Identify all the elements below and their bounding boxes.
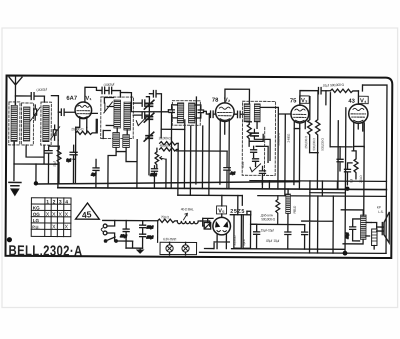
coil L11 IFT2 secondary bbox=[254, 104, 260, 122]
capacitor C5b bbox=[66, 145, 77, 183]
svg-text:.0001: .0001 bbox=[241, 161, 245, 168]
wire V4 legs bbox=[354, 122, 365, 147]
capacitor C9 bbox=[251, 146, 257, 157]
tube V3 75 bbox=[291, 105, 309, 123]
svg-text:45: 45 bbox=[81, 209, 92, 220]
svg-text:.05μf: .05μf bbox=[53, 161, 57, 167]
wire V2 plate loop bbox=[225, 89, 250, 104]
capacitor C9a thick bbox=[251, 133, 259, 136]
svg-text:2-MEG: 2-MEG bbox=[287, 133, 291, 142]
label V3 bbox=[300, 96, 310, 104]
tube V4 43 bbox=[349, 104, 368, 123]
wire tuning gang rail bbox=[146, 97, 149, 175]
wire det bbox=[254, 129, 270, 160]
wire power right rail bbox=[232, 224, 345, 249]
svg-text:(.0002μf: (.0002μf bbox=[36, 87, 47, 92]
coil L7 osc lower bbox=[123, 135, 130, 148]
wire V1 bottom bbox=[73, 127, 87, 183]
switch table bbox=[31, 198, 71, 237]
svg-text:500,000-Ω: 500,000-Ω bbox=[261, 217, 275, 221]
wire AVC row bbox=[177, 150, 227, 152]
ground chassis bbox=[9, 182, 21, 195]
capacitor C11 bbox=[259, 166, 265, 189]
svg-text:8μf·Б: 8μf·Б bbox=[242, 239, 246, 245]
wire drops to bus bbox=[58, 83, 387, 253]
coil L4 osc bbox=[114, 100, 121, 128]
svg-text:X: X bbox=[46, 212, 50, 218]
resistor R10 line bbox=[158, 219, 178, 223]
table X marks bbox=[46, 212, 69, 231]
ballast coil bbox=[177, 213, 201, 223]
potentiometer R4 volume bbox=[155, 148, 166, 168]
wire lampbox left bbox=[157, 221, 159, 242]
coil L1 antenna primary bbox=[9, 102, 20, 145]
trimmer arrow osc bbox=[104, 102, 113, 113]
wire under IFT1 bbox=[161, 128, 184, 130]
wire rect outputs bbox=[230, 195, 256, 224]
IF transformer 1 dashed box bbox=[172, 101, 200, 126]
wire output section frame bbox=[302, 146, 365, 253]
svg-text:.05μf: .05μf bbox=[146, 225, 153, 229]
svg-text:1: 1 bbox=[46, 199, 49, 205]
svg-text:3: 3 bbox=[59, 199, 62, 205]
capacitor C19 bbox=[254, 224, 260, 249]
svg-text:6.3V-ПИЛ: 6.3V-ПИЛ bbox=[163, 237, 176, 241]
capacitor C5 1uf bbox=[91, 159, 99, 188]
wire V2 cathode legs bbox=[220, 121, 229, 189]
switch arrow S2 bbox=[250, 164, 261, 172]
svg-text:250,000-Ω: 250,000-Ω bbox=[304, 135, 308, 148]
capacitor osc grid bbox=[149, 91, 161, 138]
coil L10 IFT2 primary bbox=[244, 104, 250, 122]
svg-text:15μf–15μf: 15μf–15μf bbox=[261, 228, 274, 232]
trimmer capacitor gang C bbox=[144, 132, 154, 141]
coil L5 osc bbox=[124, 102, 131, 130]
capacitor C4 grid bbox=[58, 109, 75, 115]
svg-text:OG: OG bbox=[33, 212, 41, 217]
svg-text:X: X bbox=[52, 212, 56, 218]
junction dot bottom 2 bbox=[343, 251, 348, 256]
resistor R2 bbox=[160, 142, 179, 146]
wire V1 plate cap bbox=[85, 87, 102, 102]
ground power bbox=[126, 241, 143, 253]
svg-text:4: 4 bbox=[65, 200, 68, 206]
tube V1 6A7 bbox=[75, 102, 92, 119]
wire V3 plate to coupling bbox=[300, 91, 318, 106]
trimmer capacitor gang A bbox=[144, 100, 154, 109]
capacitor C14 electrolytic bbox=[344, 163, 352, 185]
output transformer bbox=[360, 215, 366, 240]
wire antenna lead down bbox=[14, 102, 15, 145]
trimmer capacitor C2 bbox=[30, 105, 40, 121]
coil L6 osc lower bbox=[113, 132, 120, 147]
coil L8 IFT1 primary bbox=[177, 103, 184, 123]
svg-text:43: 43 bbox=[348, 98, 355, 105]
label V4 bbox=[359, 96, 369, 104]
dial lamp P1 bbox=[166, 245, 173, 252]
switch mains bbox=[104, 237, 132, 242]
dashed divider IFT2 bbox=[263, 127, 265, 175]
IF transformer 2 dashed box bbox=[242, 101, 275, 175]
coil L3 oscillator antenna side bbox=[41, 102, 52, 145]
svg-text:(.0005μf: (.0005μf bbox=[103, 82, 114, 87]
svg-text:30,000Ω: 30,000Ω bbox=[233, 235, 237, 246]
wire IFT1 input bbox=[120, 93, 168, 112]
junction dot right bbox=[345, 186, 349, 190]
capacitor C17 bbox=[140, 234, 154, 248]
svg-text:.05μf: .05μf bbox=[150, 173, 157, 177]
capacitor C21b bbox=[302, 225, 308, 250]
svg-text:LG: LG bbox=[33, 218, 40, 223]
table header digits bbox=[46, 199, 68, 205]
svg-text:KG: KG bbox=[33, 206, 40, 211]
triangle 45 bbox=[76, 203, 100, 220]
resistor R6 coupling bbox=[330, 89, 358, 93]
resistor block R11 bbox=[233, 215, 242, 249]
table row labels bbox=[32, 206, 40, 230]
svg-text:X: X bbox=[52, 224, 56, 230]
tube V5 25Z5 rectifier bbox=[213, 217, 231, 235]
speaker bbox=[377, 212, 390, 243]
wire bus top right bbox=[250, 181, 387, 185]
wire IFT2 internals bbox=[249, 134, 268, 162]
resistor R3 bbox=[160, 148, 179, 152]
wire bottom bus bbox=[200, 252, 386, 253]
trimmer capacitor C3 bbox=[51, 125, 60, 140]
coil L9 IFT1 secondary bbox=[188, 103, 195, 123]
border frame bbox=[6, 75, 393, 258]
label V5 bbox=[217, 206, 227, 215]
switch arrow S1 bbox=[136, 117, 146, 126]
svg-text:6A7: 6A7 bbox=[66, 95, 77, 102]
wire right verticals bbox=[294, 91, 346, 190]
capacitor block C18 bbox=[242, 215, 251, 249]
registration dot bbox=[7, 237, 12, 242]
voice coil bbox=[371, 222, 377, 249]
junction dot bus left bbox=[34, 181, 38, 185]
resistor R5 diode load bbox=[247, 122, 252, 142]
trimmer capacitor gang B bbox=[144, 113, 154, 122]
wire IFT2 output bbox=[257, 107, 291, 189]
svg-text:250,000-Ω: 250,000-Ω bbox=[277, 132, 281, 145]
wire V5 pins bbox=[214, 195, 230, 248]
wire osc section drops bbox=[166, 97, 210, 196]
resistor R1c horizontal bbox=[76, 119, 97, 134]
svg-text:78: 78 bbox=[212, 97, 219, 104]
capacitor IFT1 right bbox=[195, 105, 204, 118]
resistor R1b vertical bbox=[57, 146, 61, 183]
oscillator transformer dashed box bbox=[101, 97, 134, 139]
wire bus mid bbox=[178, 195, 386, 196]
svg-text:X: X bbox=[65, 212, 69, 218]
wire transformer leads bbox=[341, 210, 371, 244]
wire osc box internals bbox=[103, 97, 127, 138]
resistor R12 bleeder bbox=[276, 196, 280, 225]
wire V2 screen cap bbox=[234, 111, 244, 117]
svg-text:2: 2 bbox=[53, 199, 56, 205]
svg-text:.1μf: .1μf bbox=[91, 172, 96, 176]
svg-text:V₃: V₃ bbox=[301, 98, 308, 104]
svg-text:FIELD: FIELD bbox=[293, 205, 297, 214]
svg-text:1μf: 1μf bbox=[67, 158, 71, 162]
svg-text:75: 75 bbox=[290, 98, 297, 104]
svg-text:.01μf: .01μf bbox=[120, 234, 127, 238]
svg-text:20,000-Ω: 20,000-Ω bbox=[159, 136, 172, 140]
padder capacitor C7 bbox=[133, 112, 149, 118]
capacitor C13 bbox=[330, 147, 352, 171]
wire IFT1 to V2 grid bbox=[204, 111, 216, 117]
svg-text:.05μf: .05μf bbox=[146, 235, 153, 239]
AC plug bbox=[101, 220, 115, 241]
capacitor C8 .05uf bbox=[150, 166, 158, 189]
wire coil bottoms bbox=[14, 140, 58, 183]
svg-text:V₄: V₄ bbox=[360, 98, 367, 104]
phono pickup bbox=[203, 218, 213, 229]
dial lamp P2 bbox=[182, 245, 189, 252]
capacitor .0002uf antenna bbox=[15, 93, 44, 100]
wire V1 cathode legs bbox=[76, 113, 98, 133]
wire grid feed bbox=[51, 96, 58, 141]
svg-text:.02μf: .02μf bbox=[345, 233, 349, 239]
capacitor C15 line bbox=[120, 221, 129, 249]
capacitor C20 bbox=[285, 232, 291, 249]
svg-text:.05μf 10μf: .05μf 10μf bbox=[266, 239, 280, 243]
field coil bbox=[286, 189, 297, 232]
svg-text:L.S.: L.S. bbox=[378, 210, 383, 214]
wire power line top bbox=[103, 219, 158, 221]
capacitor C12 coupling bbox=[318, 87, 330, 93]
svg-text:X: X bbox=[58, 212, 62, 218]
wire box3 top feed bbox=[43, 96, 45, 102]
svg-text:500,000-Ω: 500,000-Ω bbox=[321, 138, 325, 151]
svg-text:P.U.: P.U. bbox=[32, 224, 39, 229]
svg-text:500,000-Ω: 500,000-Ω bbox=[312, 137, 316, 150]
capacitor C10 bbox=[253, 159, 259, 167]
svg-text:V₁: V₁ bbox=[85, 96, 92, 102]
wire V3 cathode drops bbox=[294, 122, 305, 189]
wire bus B+ bbox=[58, 188, 386, 190]
tube V2 78 bbox=[215, 103, 234, 122]
capacitor IFT1 left bbox=[168, 105, 177, 189]
capacitor V2 cathode bbox=[224, 151, 235, 189]
capacitor pair top of V1 bbox=[102, 87, 120, 97]
resistor R9 bias bbox=[352, 151, 358, 179]
capacitor C21 tone bbox=[345, 219, 360, 241]
dial lamp box bbox=[160, 242, 197, 254]
svg-text:.1μf: .1μf bbox=[230, 171, 235, 175]
wire to V4 grid bbox=[357, 91, 359, 104]
svg-text:40-Ω BAL: 40-Ω BAL bbox=[181, 207, 194, 211]
wire bus AVC bbox=[36, 180, 300, 186]
wire osc bottom bbox=[108, 139, 137, 188]
resistor R7 vertical bbox=[307, 97, 312, 153]
wire power mid bbox=[170, 221, 214, 255]
coil L2 antenna secondary bbox=[21, 103, 33, 145]
antenna bbox=[9, 76, 22, 101]
capacitor C5c bbox=[45, 146, 59, 183]
svg-text:X: X bbox=[65, 225, 69, 231]
capacitor C16 bbox=[140, 221, 154, 235]
resistor R8 vertical bbox=[315, 91, 320, 190]
svg-text:BELL.2302·A: BELL.2302·A bbox=[8, 244, 82, 260]
padder capacitor C6 bbox=[133, 100, 149, 106]
